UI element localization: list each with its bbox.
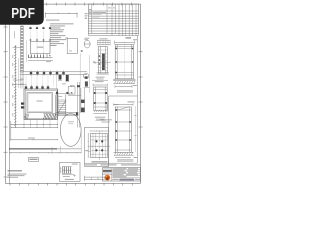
bolt plate caption underlined	[92, 161, 108, 162]
dark column component A	[59, 75, 62, 80]
plan bottom dimension tier 1	[11, 123, 58, 125]
tank ellipse plan	[60, 114, 81, 147]
zone divider vertical right	[136, 36, 138, 164]
revision table row text entries	[93, 11, 107, 14]
bolted column bolts	[99, 55, 101, 57]
zone divider vertical middle	[108, 96, 110, 166]
H2 detail label	[126, 37, 132, 38]
drawing frame inner left line	[9, 4, 11, 183]
posts row base line	[28, 59, 53, 61]
edge beam lines above tank	[56, 112, 79, 114]
bolt plate P1 label with arrow	[85, 150, 88, 151]
H2 caption underlined	[117, 90, 133, 91]
main plan outer wall	[24, 89, 58, 120]
revision table top right	[89, 4, 139, 33]
rotated text beside zone line	[107, 103, 108, 112]
bolted column horizontal ticks	[98, 49, 108, 51]
bolt plate centerlines	[88, 145, 111, 147]
bolt box caption above	[100, 118, 112, 121]
small rectangle detail near notes	[67, 38, 77, 53]
davit mast lower column	[80, 88, 82, 112]
frame elevation caption	[95, 116, 106, 119]
H2 body chords	[115, 46, 133, 48]
title block logo cell divider	[111, 168, 113, 181]
tank bottom dimension tier	[9, 152, 81, 154]
frame left tick marks	[3, 26, 7, 28]
revision table column lines	[91, 4, 93, 33]
left connector horizontals	[13, 47, 21, 49]
bolted column caption	[96, 76, 105, 79]
bolt pattern detail box	[85, 128, 109, 167]
truss bottom dimension	[115, 157, 131, 159]
bolted column detail label top	[100, 37, 108, 40]
stair opening jambs	[56, 92, 58, 94]
upper grid cross marks row 2	[29, 39, 31, 41]
revision table header text	[89, 8, 91, 11]
bolt plate chords	[91, 136, 108, 138]
upper grid column lines	[30, 26, 32, 59]
revision table bottom extra row	[89, 35, 139, 37]
anchor detail centre cross	[73, 175, 76, 177]
wall strip lower double lines	[20, 72, 22, 89]
anchor detail box bottom left	[60, 162, 80, 181]
title block bottom partial row	[112, 178, 141, 180]
beam band upper with column squares	[24, 71, 88, 73]
bar scale lines	[84, 176, 104, 178]
stair detail plan	[57, 95, 59, 117]
davit mast dark band 2	[81, 108, 85, 113]
bottom left scale notes text	[8, 170, 23, 171]
caption left above title block	[85, 164, 97, 165]
title block left cell text rows	[103, 168, 111, 171]
title block right section text rows	[113, 167, 127, 170]
frame top tick marks	[46, 3, 48, 6]
H2 base plate	[113, 78, 136, 80]
H2 node squares	[115, 48, 117, 50]
plan bottom dimension tier 2	[11, 126, 58, 128]
truss diagonal	[117, 107, 129, 110]
small rect detail below cluster	[68, 87, 75, 95]
davit mast horizontal tie	[68, 94, 81, 96]
davit mast dark collar	[77, 85, 80, 87]
bolted column base flange	[97, 72, 110, 74]
H2 bottom dimension	[115, 86, 132, 88]
sheet background	[0, 0, 149, 198]
leader vertical line mid	[79, 53, 81, 113]
H2 body outer	[115, 45, 133, 79]
anchor detail label top right	[72, 163, 78, 166]
tank dimension extension lines	[80, 131, 82, 154]
grid lines between bands	[25, 76, 27, 87]
main plan inner pit rectangle	[27, 93, 53, 113]
general notes text block	[50, 22, 74, 25]
north symbol side label B	[81, 50, 83, 52]
zone divider horizontal	[109, 95, 138, 97]
column squares row above plan	[25, 86, 27, 88]
drawing frame outer border	[5, 4, 140, 183]
pedestal component with circle	[84, 73, 89, 78]
anchor detail stud rows	[62, 166, 72, 168]
heavy section line bottom left	[9, 148, 57, 150]
caption middle above title block	[101, 164, 117, 165]
left connector short vertical	[13, 31, 15, 39]
zone bottom line	[85, 162, 138, 164]
bolt plate left dimension	[87, 134, 89, 158]
caption right above title block	[121, 164, 141, 165]
truss chords	[115, 106, 131, 108]
top dimension line	[46, 12, 77, 14]
rotated text beside table	[85, 12, 88, 15]
bolted column bottom dim	[92, 80, 108, 82]
davit mast dark band 1	[81, 100, 85, 103]
stair label text	[59, 95, 63, 98]
anchor detail left dim ticks	[60, 167, 62, 174]
extension line pair to detail box	[77, 82, 79, 128]
title block right section row lines	[112, 169, 141, 171]
truss top dimension	[114, 104, 134, 106]
top dimension label text	[46, 20, 60, 21]
frame elevation label top	[95, 80, 104, 83]
dark column component B	[66, 75, 69, 81]
truss node squares	[116, 109, 118, 111]
truss right side dim ticks	[134, 115, 136, 117]
bolt plate inner verticals	[92, 134, 94, 158]
bolted column body	[98, 47, 107, 74]
posts row below platform	[28, 57, 53, 59]
plan right wall double line	[55, 95, 57, 120]
plan bottom-left corner hatch	[24, 114, 26, 120]
bolt plate top dimension	[91, 130, 108, 132]
drawing reference tag L-001	[29, 158, 39, 162]
upper platform rectangle	[31, 42, 51, 54]
truss base	[114, 151, 134, 153]
north symbol circle with cross	[84, 40, 90, 48]
frame elevation bottom dim	[94, 113, 108, 115]
plan bottom-right dark hatch cluster	[44, 114, 46, 119]
anchor detail base line	[62, 174, 74, 176]
bolt plate anchor bolts	[95, 140, 97, 142]
bolt plate outer rect	[91, 134, 108, 158]
hatched wall strip upper left	[21, 26, 24, 72]
left vertical dimension chain	[14, 45, 16, 128]
truss detail label top	[128, 101, 135, 102]
PDF badge dark overlay	[0, 0, 44, 25]
title block outer	[102, 168, 140, 181]
anchor detail caption	[65, 179, 74, 180]
frame bottom tick marks	[9, 183, 11, 185]
upper grid steel column marks row 1	[29, 27, 31, 29]
edge beam end dark block	[76, 112, 78, 115]
grid line right edge of strip	[25, 40, 27, 62]
secondary vertical dimension line	[18, 58, 20, 88]
H2 top dimension line	[115, 41, 135, 43]
title block drawing number row	[120, 179, 135, 181]
bolted column dimension ladder	[97, 39, 111, 41]
bolted column centerline	[93, 61, 111, 63]
frame elevation top dim	[93, 84, 108, 86]
plan lower dimension tier 3	[11, 139, 58, 141]
frame elevation base hatch	[94, 110, 95, 112]
frame elevation nodes	[94, 92, 96, 94]
wall strip lower dark anchors	[21, 103, 24, 105]
truss body rails	[114, 107, 116, 153]
truss caption underlined	[117, 159, 133, 160]
dimension drop lines below plan	[23, 120, 25, 128]
H2 center vertical dashed	[123, 45, 125, 79]
left dimension chain text specks	[12, 55, 13, 58]
frame elevation body	[94, 87, 108, 110]
company logo orange circle	[104, 175, 110, 181]
leader vertical line right of cluster	[89, 55, 91, 93]
svg-text:PDF: PDF	[11, 6, 35, 22]
tank label text	[68, 120, 74, 123]
frame right tick marks	[139, 51, 143, 53]
